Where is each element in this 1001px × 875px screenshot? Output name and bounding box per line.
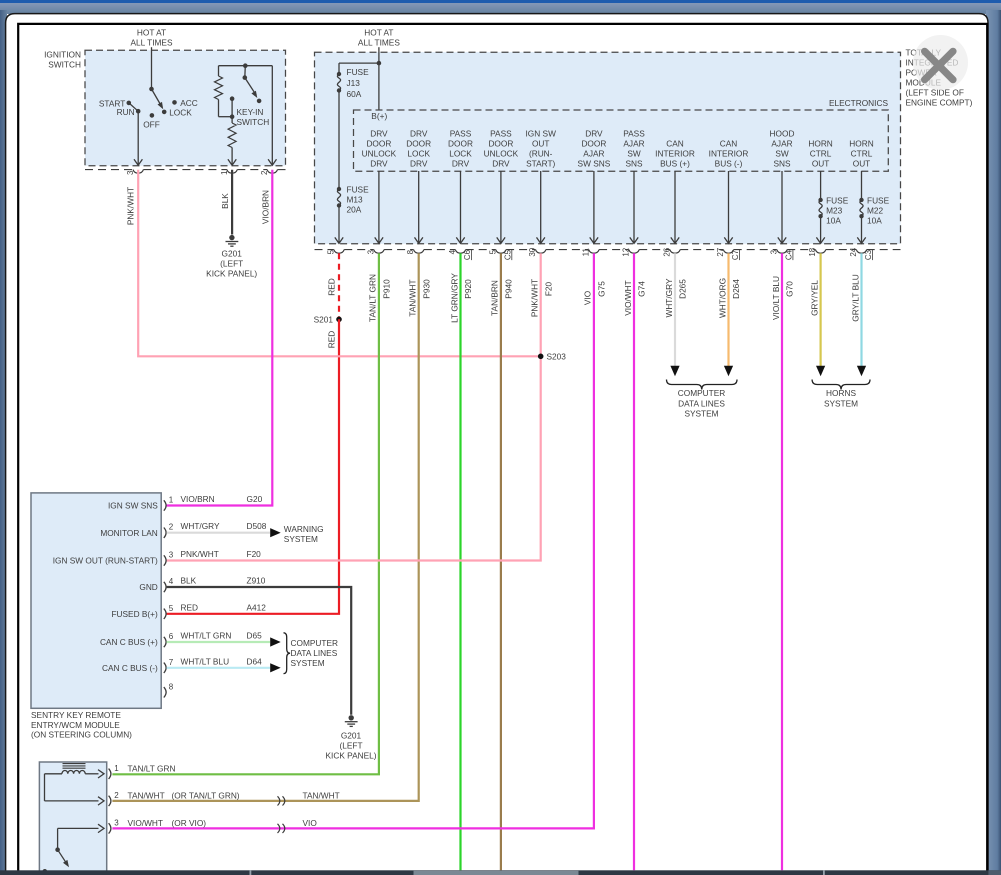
connector C7 (731, 249, 740, 260)
label P920 (463, 279, 473, 299)
svg-text:GRY/LT BLU: GRY/LT BLU (850, 274, 860, 322)
label KEY-IN SWITCH (237, 107, 270, 127)
svg-text:OFF: OFF (143, 120, 160, 130)
svg-text:VIO/WHT: VIO/WHT (128, 818, 164, 828)
resistor key-in lower (228, 123, 236, 165)
TIPM output HORN CTRL OUT (849, 138, 889, 243)
sentry wire name labels (181, 494, 267, 666)
svg-text:TAN/LT GRN: TAN/LT GRN (128, 763, 176, 773)
svg-text:TAN/WHT: TAN/WHT (303, 790, 340, 800)
resistor key-in upper (215, 66, 235, 119)
svg-text:3: 3 (126, 170, 135, 175)
wire WHT/ORG D264 (724, 253, 733, 376)
svg-text:TAN/BRN: TAN/BRN (490, 280, 500, 316)
label G74 (637, 281, 647, 297)
TIPM output DRV DOOR LOCK DRV (406, 128, 431, 243)
svg-text:UNLOCK: UNLOCK (362, 149, 397, 159)
label PNK/WHT (ignition) (126, 187, 136, 225)
svg-text:1: 1 (114, 764, 119, 773)
svg-text:KEY-IN: KEY-IN (237, 107, 264, 117)
close button (913, 35, 968, 90)
wire WHT/LT GRN D65 (167, 637, 281, 646)
key-in switch circuit top wire (219, 63, 277, 165)
svg-text:LT GRN/GRY: LT GRN/GRY (449, 273, 459, 323)
svg-text:TAN/LT GRN: TAN/LT GRN (368, 274, 378, 322)
svg-text:BUS (-): BUS (-) (715, 159, 743, 169)
TIPM pin numbers (327, 247, 859, 256)
svg-text:DRV: DRV (410, 159, 428, 169)
svg-text:CTRL: CTRL (810, 149, 832, 159)
svg-text:RUN: RUN (117, 107, 135, 117)
transformer coil (45, 764, 105, 806)
label TOTALLY INTEGRATED POWER MODULE (906, 48, 973, 108)
svg-text:SNS: SNS (773, 159, 791, 169)
svg-text:PNK/WHT: PNK/WHT (529, 279, 539, 317)
svg-text:ACC: ACC (180, 98, 198, 108)
svg-text:INTERIOR: INTERIOR (655, 149, 695, 159)
brace horns system (812, 380, 870, 409)
ground G201 sentry (325, 715, 376, 760)
wire VIO/BRN G20 (167, 170, 273, 506)
svg-text:SW: SW (627, 149, 641, 159)
TIPM output IGN SW OUT (RUN- START) (525, 128, 556, 243)
svg-text:D264: D264 (731, 279, 741, 299)
TIPM output PASS AJAR SW SNS (623, 128, 645, 243)
svg-text:G70: G70 (785, 281, 795, 297)
label RED (below S201) (326, 331, 336, 349)
svg-text:Z910: Z910 (247, 576, 266, 586)
svg-text:WARNING: WARNING (284, 524, 324, 534)
svg-text:LOCK: LOCK (169, 108, 192, 118)
wire fuse J13 to M13 (338, 91, 340, 190)
svg-text:C5: C5 (503, 249, 512, 260)
label IGNITION SWITCH (44, 50, 81, 70)
svg-text:G74: G74 (637, 281, 647, 297)
svg-text:S203: S203 (547, 352, 567, 362)
svg-text:M13: M13 (347, 195, 364, 205)
electronics box (354, 110, 889, 171)
connector row ignition switch (85, 170, 286, 174)
svg-text:G201: G201 (341, 730, 362, 740)
label VIO/BRN (ignition) (261, 190, 271, 224)
svg-text:B(+): B(+) (371, 111, 387, 121)
label TAN/BRN (490, 280, 500, 316)
label WHT/ORG (D264) (717, 278, 727, 318)
svg-text:IGN SW: IGN SW (525, 128, 556, 138)
label GRY/LT BLU (850, 274, 860, 322)
TIPM output HORN CTRL OUT (808, 138, 848, 243)
connector C4 (785, 249, 794, 260)
svg-text:7: 7 (169, 658, 174, 667)
svg-text:GND: GND (139, 582, 157, 592)
svg-text:CTRL: CTRL (851, 149, 873, 159)
svg-text:4: 4 (448, 249, 457, 254)
pin 1 row TAN/LT GRN (114, 763, 175, 773)
svg-text:P910: P910 (381, 279, 391, 299)
svg-text:F20: F20 (543, 281, 553, 296)
svg-text:HORN: HORN (808, 138, 832, 148)
svg-text:FUSED B(+): FUSED B(+) (111, 609, 158, 619)
wire TAN/LT GRN P910 (112, 253, 379, 774)
wire BLK Z910 (167, 587, 352, 715)
svg-text:CAN C BUS (+): CAN C BUS (+) (100, 637, 158, 647)
svg-text:C7: C7 (731, 249, 740, 260)
label WARNING SYSTEM (284, 524, 324, 544)
label TAN/WHT (P930) (407, 279, 417, 316)
svg-text:C3: C3 (864, 249, 873, 260)
svg-text:BUS (+): BUS (+) (660, 159, 690, 169)
label RED (above S201) (326, 278, 336, 296)
TIPM output DRV DOOR UNLOCK DRV (362, 128, 397, 243)
label F20 (543, 281, 553, 296)
svg-text:20A: 20A (347, 205, 362, 215)
svg-text:WHT/ORG: WHT/ORG (717, 278, 727, 318)
svg-text:LOCK: LOCK (407, 149, 430, 159)
wire LT GRN/GRY P920 (459, 253, 461, 870)
label BLK (220, 193, 230, 209)
TIPM output PASS DOOR LOCK DRV (448, 128, 473, 243)
svg-text:PASS: PASS (450, 128, 472, 138)
label P910 (381, 279, 391, 299)
svg-text:IGN SW SNS: IGN SW SNS (108, 501, 158, 511)
splice pin3 row (278, 824, 285, 833)
svg-text:HORN: HORN (849, 138, 873, 148)
wire TAN/BRN P940 (500, 253, 502, 870)
svg-text:M23: M23 (826, 205, 843, 215)
svg-text:27: 27 (716, 247, 725, 256)
wire ignition RUN output (134, 111, 142, 165)
svg-text:G201: G201 (222, 248, 243, 258)
svg-text:M22: M22 (867, 205, 884, 215)
svg-text:3: 3 (770, 249, 779, 254)
svg-text:4: 4 (169, 577, 174, 586)
svg-text:CAN: CAN (720, 138, 738, 148)
wire GRY/YEL (816, 253, 825, 376)
label HOT AT ALL TIMES (TIPM feed) (358, 28, 400, 48)
svg-text:WHT/LT BLU: WHT/LT BLU (181, 656, 230, 666)
svg-text:SYSTEM: SYSTEM (291, 658, 325, 668)
wire PNK/WHT ignition to S203 (138, 170, 541, 356)
svg-text:8: 8 (406, 249, 415, 254)
label VIO/LT BLU (771, 276, 781, 320)
svg-text:(ON STEERING COLUMN): (ON STEERING COLUMN) (31, 730, 132, 740)
label WHT/GRY (D265) (664, 278, 674, 317)
wire GRY/LT BLU (857, 253, 866, 376)
label TAN/LT GRN (368, 274, 378, 322)
svg-text:DOOR: DOOR (581, 138, 606, 148)
svg-text:OUT: OUT (853, 159, 871, 169)
label G70 (785, 281, 795, 297)
svg-text:(RUN-: (RUN- (529, 149, 553, 159)
svg-text:SENTRY KEY REMOTE: SENTRY KEY REMOTE (31, 710, 121, 720)
svg-text:DRV: DRV (585, 128, 603, 138)
svg-text:RED: RED (326, 278, 336, 296)
svg-text:ENTRY/WCM MODULE: ENTRY/WCM MODULE (31, 720, 120, 730)
svg-text:A412: A412 (247, 602, 267, 612)
svg-text:DRV: DRV (452, 159, 470, 169)
TIPM output DRV DOOR AJAR SW SNS (578, 128, 611, 243)
fuse M13 20A (337, 185, 369, 215)
label ELECTRONICS (829, 98, 888, 108)
svg-text:SYSTEM: SYSTEM (284, 534, 318, 544)
taskbar (0, 870, 1001, 875)
svg-text:(OR TAN/LT GRN): (OR TAN/LT GRN) (172, 790, 240, 800)
wire ignition feed (151, 47, 153, 89)
svg-text:10A: 10A (867, 215, 882, 225)
svg-text:DOOR: DOOR (406, 138, 431, 148)
svg-text:SW: SW (775, 149, 789, 159)
svg-text:10A: 10A (826, 215, 841, 225)
svg-text:P940: P940 (503, 279, 513, 299)
svg-text:DOOR: DOOR (448, 138, 473, 148)
svg-text:LOCK: LOCK (449, 149, 472, 159)
svg-text:DATA LINES: DATA LINES (678, 398, 725, 408)
wire VIO/WHT G74 (633, 253, 635, 870)
svg-text:D508: D508 (247, 521, 267, 531)
svg-text:12: 12 (622, 247, 631, 256)
svg-text:AJAR: AJAR (771, 138, 792, 148)
svg-text:5: 5 (488, 249, 497, 254)
label VIO (G75) (583, 290, 593, 305)
svg-text:UNLOCK: UNLOCK (484, 149, 519, 159)
svg-text:SW SNS: SW SNS (578, 159, 611, 169)
label SENTRY KEY REMOTE ENTRY/WCM MODULE (31, 710, 132, 739)
svg-text:1: 1 (169, 496, 174, 505)
svg-text:DATA LINES: DATA LINES (291, 648, 338, 658)
bottom module switch (42, 824, 104, 874)
svg-text:RED: RED (181, 602, 199, 612)
svg-text:SYSTEM: SYSTEM (824, 398, 858, 408)
wire VIO/LT BLU G70 (781, 253, 783, 870)
svg-text:WHT/LT GRN: WHT/LT GRN (181, 631, 232, 641)
svg-text:VIO/LT BLU: VIO/LT BLU (771, 276, 781, 320)
svg-text:2: 2 (114, 791, 119, 800)
svg-text:MONITOR LAN: MONITOR LAN (100, 528, 157, 538)
svg-text:RED: RED (326, 331, 336, 349)
label B(+) (371, 111, 387, 121)
svg-text:8: 8 (169, 682, 174, 691)
svg-text:(LEFT: (LEFT (339, 740, 362, 750)
svg-text:GRY/YEL: GRY/YEL (809, 280, 819, 316)
wire RED dashed (pin5 to S201) (338, 253, 340, 319)
pin 3 (ignition) (126, 170, 135, 175)
TIPM output CAN INTERIOR BUS (+) (655, 138, 695, 243)
svg-text:P930: P930 (421, 279, 431, 299)
svg-text:D265: D265 (678, 279, 688, 299)
splice S201 (314, 315, 342, 325)
svg-text:5: 5 (327, 249, 336, 254)
svg-text:60A: 60A (347, 89, 362, 99)
svg-text:KICK PANEL): KICK PANEL) (325, 750, 376, 760)
svg-text:WHT/GRY: WHT/GRY (664, 278, 674, 317)
wire BLK ignition pin1 (231, 170, 233, 235)
svg-text:HOOD: HOOD (770, 128, 795, 138)
wire B(+) feed (339, 61, 381, 110)
connector C5 (503, 249, 512, 260)
svg-text:26: 26 (663, 247, 672, 256)
svg-text:COMPUTER: COMPUTER (291, 638, 338, 648)
svg-text:C4: C4 (785, 249, 794, 260)
svg-text:OUT: OUT (532, 138, 550, 148)
svg-text:SNS: SNS (625, 159, 643, 169)
ignition switch SW (contacts START RUN OFF LOCK ACC) (99, 87, 198, 130)
svg-text:(OR VIO): (OR VIO) (172, 818, 207, 828)
wire WHT/GRY D265 (670, 253, 679, 376)
svg-text:FUSE: FUSE (347, 185, 370, 195)
svg-text:DRV: DRV (492, 159, 510, 169)
pin 3 row VIO/WHT (114, 818, 317, 828)
wire TAN/WHT P930 (112, 253, 418, 801)
TIPM output PASS DOOR UNLOCK DRV (484, 128, 519, 243)
svg-text:HOT AT: HOT AT (137, 28, 166, 38)
svg-text:AJAR: AJAR (583, 149, 604, 159)
pin 1 (ignition) (220, 170, 229, 175)
svg-text:AJAR: AJAR (623, 138, 644, 148)
svg-text:START): START) (526, 159, 555, 169)
TIPM output HOOD AJAR SW SNS (770, 128, 795, 243)
svg-text:ELECTRONICS: ELECTRONICS (829, 98, 888, 108)
wire PNK/WHT F20 (167, 253, 541, 560)
ground G201 ignition (206, 235, 257, 278)
svg-text:PNK/WHT: PNK/WHT (126, 187, 136, 225)
svg-text:SYSTEM: SYSTEM (684, 409, 718, 419)
bottom module box (39, 762, 106, 875)
svg-text:DOOR: DOOR (366, 138, 391, 148)
svg-text:5: 5 (169, 604, 174, 613)
svg-text:VIO/WHT: VIO/WHT (623, 280, 633, 316)
wire WHT/LT BLU D64 (167, 663, 281, 672)
splice S203 (538, 352, 566, 362)
bottom module pin brackets (109, 769, 111, 834)
svg-text:VIO/BRN: VIO/BRN (261, 190, 271, 224)
label GRY/YEL (809, 280, 819, 316)
brace computer data lines system (667, 380, 738, 419)
svg-text:VIO: VIO (303, 818, 318, 828)
svg-text:HORNS: HORNS (826, 388, 856, 398)
key-in switch SW (230, 66, 262, 123)
svg-text:TAN/WHT: TAN/WHT (407, 279, 417, 316)
svg-text:3: 3 (114, 818, 119, 827)
wire WHT/GRY D508 (167, 528, 281, 537)
svg-text:IGNITION: IGNITION (44, 50, 81, 60)
label LT GRN/GRY (449, 273, 459, 323)
svg-text:24: 24 (849, 247, 858, 256)
svg-text:FUSE: FUSE (347, 67, 370, 77)
svg-text:D64: D64 (247, 656, 263, 666)
svg-text:18: 18 (808, 247, 817, 256)
pin 2 (ignition) (260, 170, 269, 175)
svg-text:WHT/GRY: WHT/GRY (181, 521, 220, 531)
wire TIPM feed (378, 47, 380, 63)
connector C6 (463, 249, 472, 260)
fuse J13 60A (337, 67, 369, 99)
label G75 (596, 281, 606, 297)
wire RED A412 (167, 319, 339, 614)
wire VIO G75 (112, 253, 594, 828)
svg-text:ALL TIMES: ALL TIMES (131, 38, 173, 48)
svg-text:PNK/WHT: PNK/WHT (181, 549, 219, 559)
svg-text:DRV: DRV (370, 159, 388, 169)
svg-text:VIO/BRN: VIO/BRN (181, 494, 215, 504)
label P930 (421, 279, 431, 299)
svg-text:F20: F20 (247, 549, 262, 559)
svg-text:S201: S201 (314, 315, 334, 325)
svg-text:PASS: PASS (490, 128, 512, 138)
svg-text:6: 6 (169, 632, 174, 641)
svg-text:11: 11 (581, 248, 590, 257)
svg-text:P920: P920 (463, 279, 473, 299)
svg-text:INTERIOR: INTERIOR (709, 149, 749, 159)
svg-text:SWITCH: SWITCH (237, 117, 270, 127)
svg-text:(LEFT: (LEFT (220, 258, 243, 268)
label D264 (731, 279, 741, 299)
label PNK/WHT (F20) (529, 279, 539, 317)
svg-text:D65: D65 (247, 631, 263, 641)
wire fuse M13 to pin 5 (335, 206, 343, 244)
svg-text:FUSE: FUSE (867, 195, 890, 205)
svg-text:DRV: DRV (410, 128, 428, 138)
svg-text:3: 3 (366, 249, 375, 254)
svg-text:2: 2 (260, 170, 269, 175)
label VIO/WHT (G74) (623, 280, 633, 316)
svg-text:3: 3 (169, 551, 174, 560)
pin 2 row TAN/WHT (114, 790, 339, 800)
svg-text:G75: G75 (596, 281, 606, 297)
svg-text:DRV: DRV (370, 128, 388, 138)
svg-text:ALL TIMES: ALL TIMES (358, 38, 400, 48)
sentry module terminal labels (53, 501, 159, 673)
svg-text:COMPUTER: COMPUTER (678, 388, 725, 398)
TIPM box (315, 52, 901, 244)
brace computer data lines (sentry) (284, 633, 338, 674)
svg-text:G20: G20 (247, 494, 263, 504)
svg-text:2: 2 (169, 523, 174, 532)
connector C3 (864, 249, 873, 260)
svg-text:FUSE: FUSE (826, 195, 849, 205)
svg-text:ENGINE COMPT): ENGINE COMPT) (906, 98, 973, 108)
svg-text:KICK PANEL): KICK PANEL) (206, 268, 257, 278)
svg-text:PASS: PASS (623, 128, 645, 138)
connector row TIPM (315, 250, 901, 254)
TIPM output CAN INTERIOR BUS (-) (709, 138, 749, 243)
svg-text:OUT: OUT (812, 159, 830, 169)
ignition switch box (85, 50, 286, 166)
label HOT AT ALL TIMES (ignition feed) (131, 28, 173, 48)
svg-text:30: 30 (528, 247, 537, 256)
svg-text:1: 1 (220, 170, 229, 175)
label P940 (503, 279, 513, 299)
svg-text:TAN/WHT: TAN/WHT (128, 790, 165, 800)
svg-text:C6: C6 (463, 249, 472, 260)
svg-text:DOOR: DOOR (488, 138, 513, 148)
svg-text:VIO: VIO (583, 290, 593, 305)
splice pin2 row (278, 796, 285, 805)
svg-text:BLK: BLK (220, 193, 230, 209)
svg-text:HOT AT: HOT AT (364, 28, 393, 38)
sentry key module box (31, 493, 161, 708)
sentry module pins 1-8 (164, 496, 174, 698)
svg-text:J13: J13 (347, 78, 361, 88)
svg-text:BLK: BLK (181, 576, 197, 586)
svg-text:CAN: CAN (666, 138, 684, 148)
svg-text:IGN SW OUT (RUN-START): IGN SW OUT (RUN-START) (53, 556, 158, 566)
svg-text:CAN C BUS (-): CAN C BUS (-) (102, 663, 158, 673)
label D265 (678, 279, 688, 299)
svg-text:SWITCH: SWITCH (48, 60, 81, 70)
